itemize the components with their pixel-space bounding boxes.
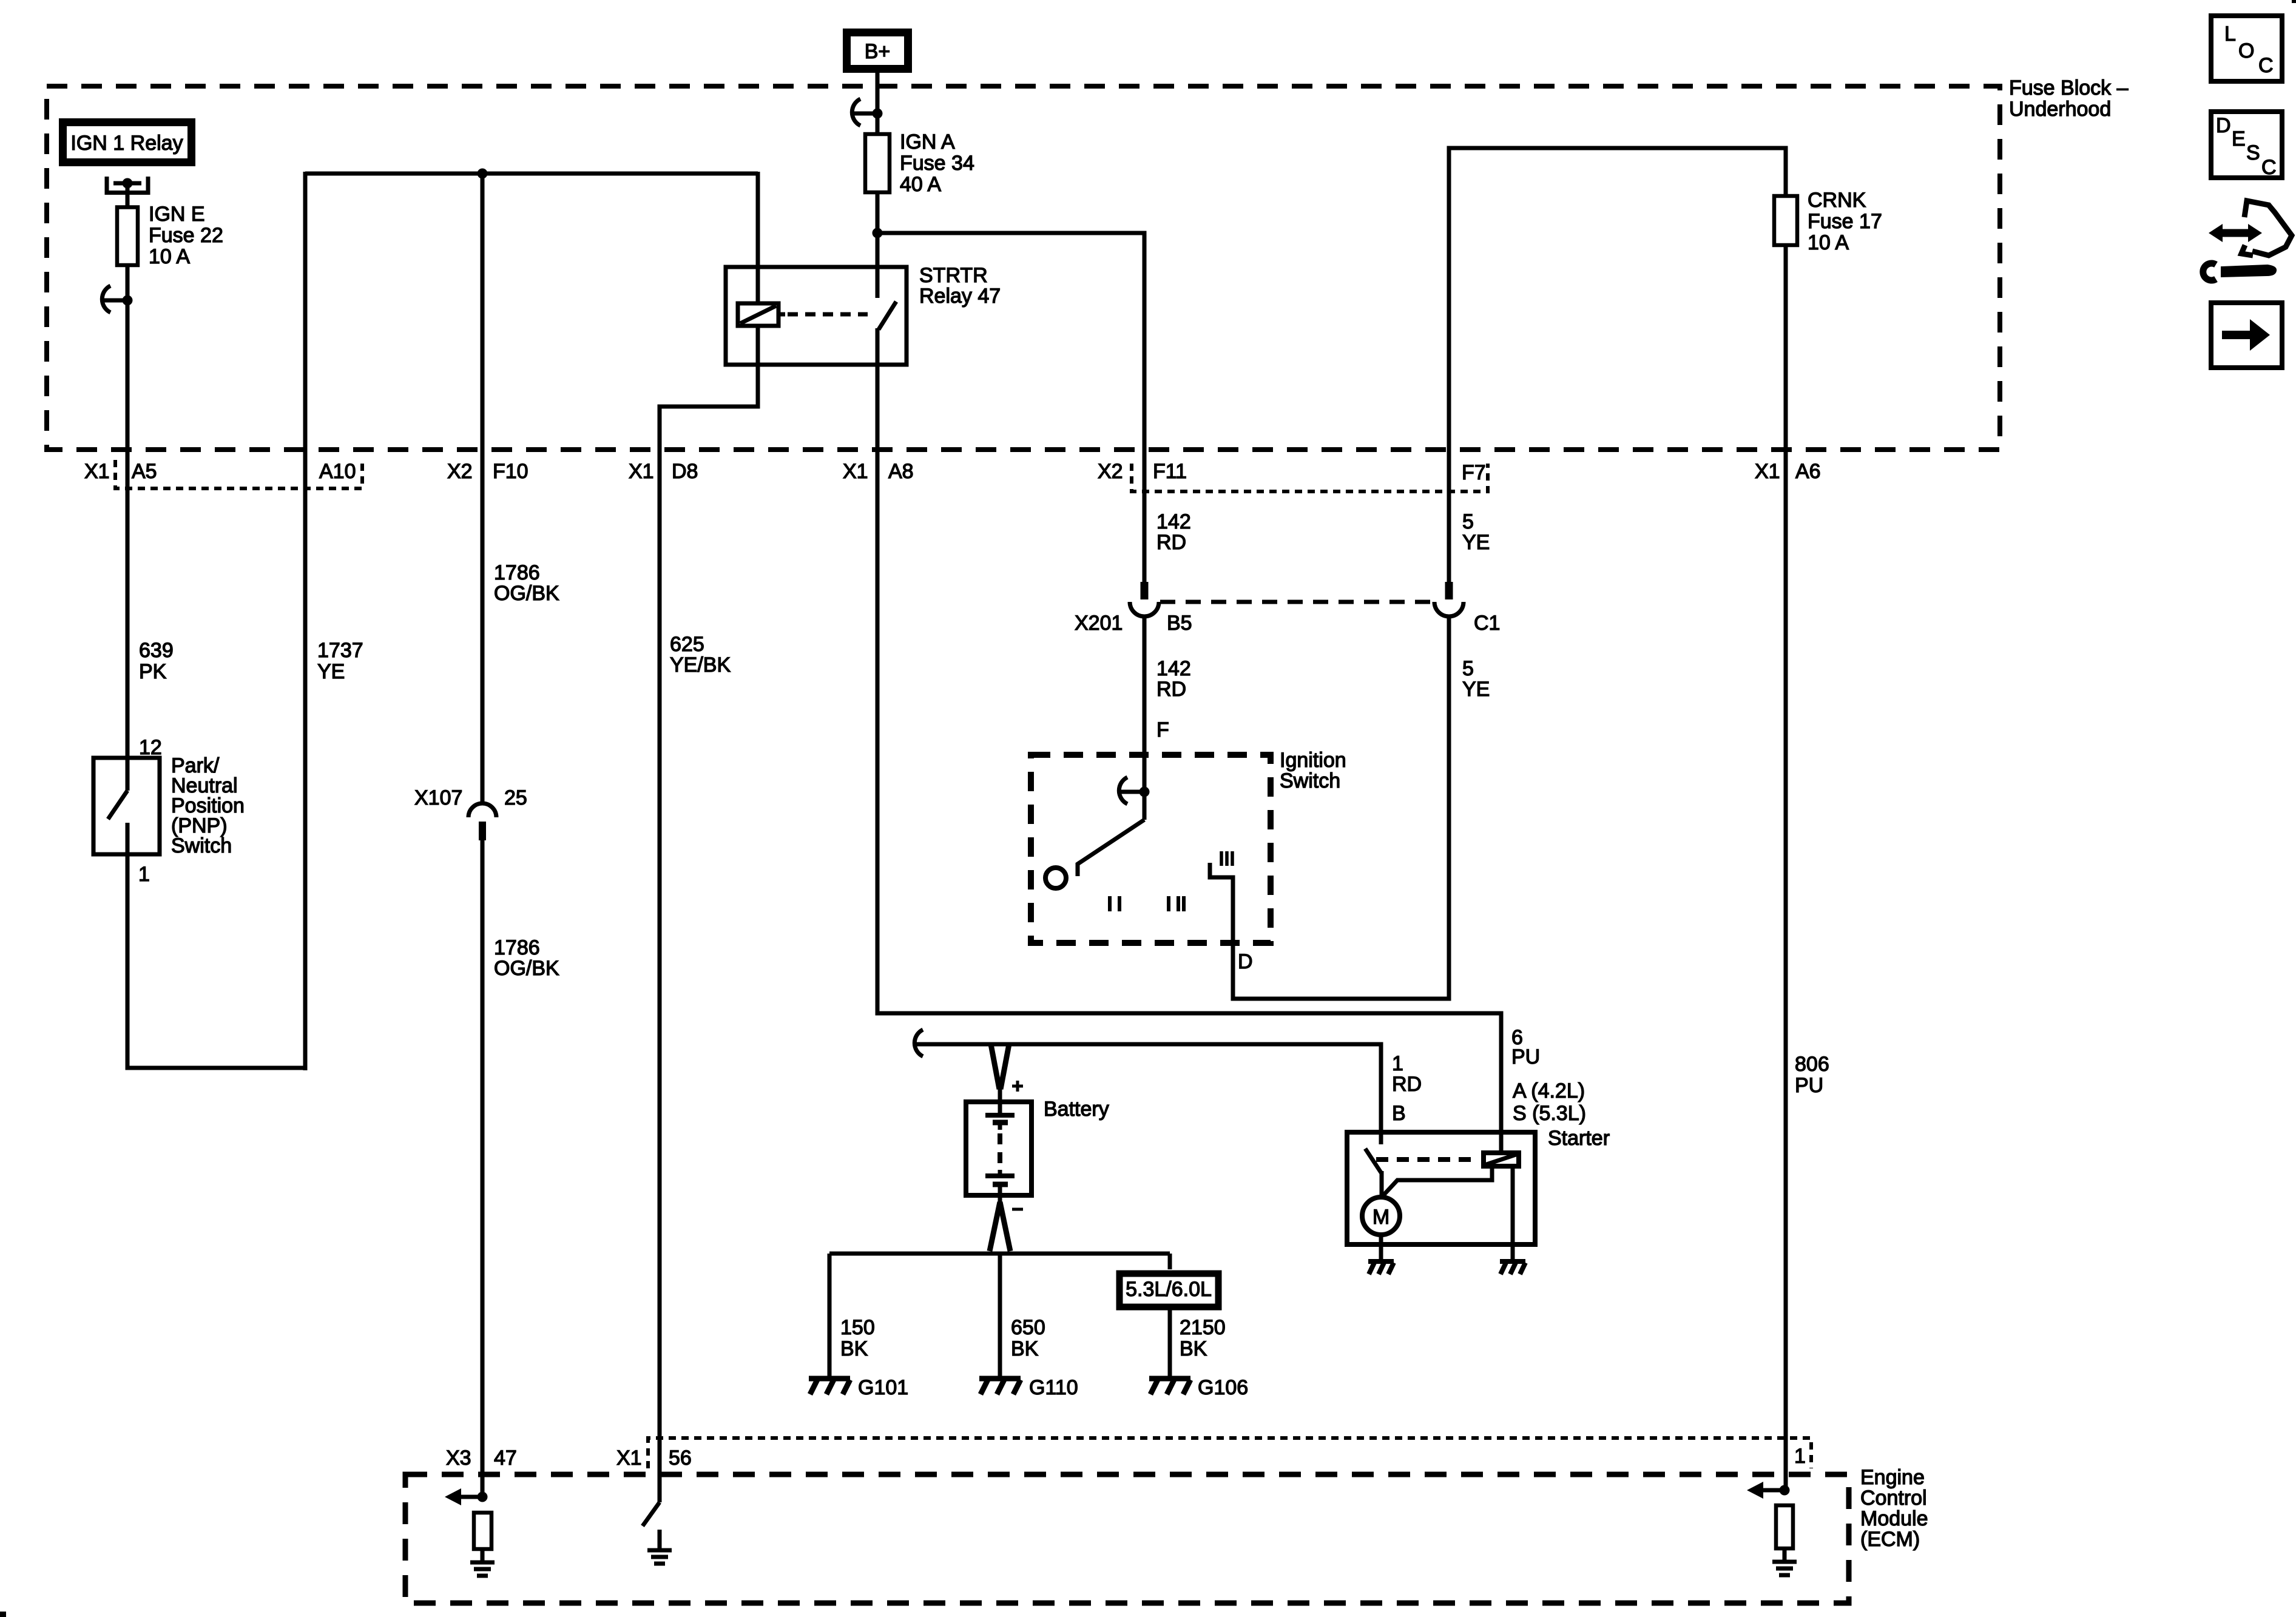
wire switch to earth pin 56 xyxy=(658,1530,662,1548)
svg-text:Fuse 34: Fuse 34 xyxy=(900,152,974,175)
ECM internal resistor pin 47 xyxy=(474,1513,491,1549)
wire junction to F11 column xyxy=(877,233,1144,582)
ground starter solenoid xyxy=(1500,1261,1525,1274)
battery positive feed taper xyxy=(991,1044,1009,1089)
IGN 1 relay output terminal bracket xyxy=(107,177,148,193)
svg-text:PU: PU xyxy=(1511,1045,1540,1068)
junction dot at B+ clip xyxy=(873,109,883,119)
svg-text:40 A: 40 A xyxy=(900,173,941,196)
svg-text:C: C xyxy=(2261,156,2277,179)
wire label 1 RD xyxy=(1392,1052,1422,1096)
ECM internal arrow pin 47 xyxy=(445,1488,482,1505)
wire ignition D to C1 5 YE column xyxy=(1231,997,1450,1001)
relay 47 switch blade xyxy=(879,302,896,329)
svg-text:F: F xyxy=(1156,718,1169,741)
icon forward arrow box xyxy=(2211,303,2282,368)
svg-text:IGN E: IGN E xyxy=(149,203,205,226)
fuse CRNK value label xyxy=(1808,189,1882,254)
svg-text:5.3L/6.0L: 5.3L/6.0L xyxy=(1126,1278,1212,1301)
ignition key position mark I II xyxy=(1169,896,1184,911)
power symbol B+ label box xyxy=(847,33,908,69)
ECM connector X1 strip xyxy=(648,1438,1811,1468)
svg-text:12: 12 xyxy=(139,736,162,759)
svg-text:F10: F10 xyxy=(493,460,528,483)
svg-text:X3: X3 xyxy=(446,1447,471,1470)
svg-text:806: 806 xyxy=(1795,1053,1829,1076)
svg-text:D: D xyxy=(2216,114,2231,137)
svg-text:5: 5 xyxy=(1462,657,1474,680)
svg-text:(ECM): (ECM) xyxy=(1860,1528,1920,1551)
wire label 1737 YE xyxy=(317,639,363,683)
svg-text:5: 5 xyxy=(1462,510,1474,533)
motor M circle xyxy=(1362,1197,1400,1235)
ignition key position mark II xyxy=(1110,896,1119,911)
svg-text:Ignition: Ignition xyxy=(1280,749,1346,772)
svg-text:YE/BK: YE/BK xyxy=(670,653,731,677)
icon wrench and arrows xyxy=(2203,201,2292,280)
svg-text:RD: RD xyxy=(1156,531,1186,554)
svg-text:10 A: 10 A xyxy=(149,245,190,268)
wire battery positive bus to starter B xyxy=(935,1044,1381,1144)
wire F7 exit to connector C1 xyxy=(1447,452,1451,582)
starter box xyxy=(1347,1132,1535,1244)
svg-text:142: 142 xyxy=(1156,657,1191,680)
svg-text:BK: BK xyxy=(1011,1337,1039,1360)
svg-text:X2: X2 xyxy=(1098,460,1123,483)
wire ground drop G101 xyxy=(828,1254,832,1377)
svg-text:E: E xyxy=(2232,127,2246,150)
connector X2 strip on fuse block xyxy=(1132,464,1488,491)
in-line connector X201 pin B5 xyxy=(1130,582,1159,616)
svg-text:Engine: Engine xyxy=(1860,1466,1925,1489)
svg-text:CRNK: CRNK xyxy=(1808,189,1866,212)
ignition switch crank contact D xyxy=(1210,863,1233,999)
wire label 6 PU xyxy=(1511,1026,1540,1068)
svg-text:625: 625 xyxy=(670,633,704,656)
wire label 150 BK xyxy=(840,1316,875,1360)
battery internal dashed link xyxy=(998,1133,1002,1169)
svg-text:Fuse Block –: Fuse Block – xyxy=(2009,76,2129,100)
earth ground ECM pin 1 xyxy=(1772,1562,1797,1575)
svg-text:10 A: 10 A xyxy=(1808,231,1849,254)
wire label 639 PK xyxy=(139,639,174,683)
wire ground drop G106 lower xyxy=(1168,1308,1172,1377)
svg-text:S: S xyxy=(2246,141,2260,164)
svg-text:639: 639 xyxy=(139,639,174,662)
svg-text:IGN A: IGN A xyxy=(900,130,955,154)
battery negative post xyxy=(998,1186,1002,1204)
svg-text:X1: X1 xyxy=(84,460,110,483)
ECM name label xyxy=(1860,1466,1928,1551)
svg-text:X1: X1 xyxy=(1755,460,1780,483)
fuse IGN A value label xyxy=(900,130,974,196)
battery negative feed taper xyxy=(990,1202,1010,1251)
fuse IGN E Fuse 22 xyxy=(117,208,138,266)
svg-text:BK: BK xyxy=(840,1337,868,1360)
svg-text:S (5.3L): S (5.3L) xyxy=(1513,1102,1586,1125)
battery minus sign label xyxy=(1012,1208,1023,1211)
relay STRTR label xyxy=(919,264,1001,308)
svg-text:25: 25 xyxy=(504,786,527,809)
wire relay 47 coil top to rail xyxy=(756,172,760,303)
wire A8 column to starter solenoid S xyxy=(877,452,1501,1150)
svg-text:47: 47 xyxy=(494,1447,517,1470)
svg-text:Control: Control xyxy=(1860,1487,1927,1510)
fuse CRNK Fuse 17 xyxy=(1774,196,1797,245)
battery plus sign label xyxy=(1012,1081,1023,1092)
svg-text:X201: X201 xyxy=(1075,612,1123,635)
earth ground ECM pin 47 xyxy=(470,1562,495,1576)
junction dot at IGN E clip xyxy=(123,295,133,306)
junction dot at IGN 1 relay terminal xyxy=(123,178,133,189)
svg-text:D8: D8 xyxy=(672,460,698,483)
svg-text:D: D xyxy=(1238,950,1253,973)
wire B+ feed into fuse block xyxy=(876,69,880,134)
svg-text:1737: 1737 xyxy=(317,639,363,662)
relay IGN 1 Relay label box xyxy=(63,123,192,163)
pin label X1 A6 xyxy=(1755,460,1821,483)
connector X1 strip on fuse block xyxy=(115,460,362,488)
svg-text:OG/BK: OG/BK xyxy=(494,957,559,980)
ignition switch name label xyxy=(1280,749,1346,792)
battery positive splice clip xyxy=(914,1030,940,1056)
wire X107 down to ECM pin 47 xyxy=(481,840,485,1497)
ground G101 xyxy=(809,1379,850,1394)
wire resistor to earth pin 47 xyxy=(481,1549,485,1561)
svg-text:RD: RD xyxy=(1156,678,1186,701)
svg-text:Fuse 22: Fuse 22 xyxy=(149,224,223,247)
svg-text:1: 1 xyxy=(1794,1445,1806,1468)
svg-text:Switch: Switch xyxy=(171,834,232,857)
in-line connector X107 xyxy=(468,803,496,840)
PNP switch blade xyxy=(108,791,127,819)
in-line connector X201 dashed body xyxy=(1160,600,1436,604)
ignition switch clip at F terminal xyxy=(1119,777,1144,804)
ignition switch dashed box xyxy=(1031,755,1271,943)
svg-text:IGN 1 Relay: IGN 1 Relay xyxy=(70,132,183,155)
pin label X3 47 xyxy=(446,1447,517,1470)
svg-text:M: M xyxy=(1373,1206,1389,1229)
wire label 5 YE lower xyxy=(1462,657,1490,701)
svg-text:C: C xyxy=(2258,54,2274,77)
battery cell plates upper xyxy=(985,1115,1015,1130)
wire solenoid output to motor xyxy=(1382,1169,1492,1197)
svg-text:F11: F11 xyxy=(1153,460,1187,483)
ground G110 xyxy=(979,1379,1021,1394)
wire label 625 YE/BK xyxy=(670,633,731,677)
svg-text:X2: X2 xyxy=(447,460,473,483)
pin label X1 56 xyxy=(616,1447,692,1470)
ground G106 xyxy=(1149,1379,1190,1394)
fuse block clip at IGN E output xyxy=(102,286,127,312)
wire relay 47 coil bottom to D8 column xyxy=(660,326,758,452)
ECM internal arrow pin 1 xyxy=(1747,1482,1784,1499)
junction dot ECM pin 1 input xyxy=(1780,1485,1790,1496)
svg-text:F7: F7 xyxy=(1462,461,1486,484)
svg-text:A10: A10 xyxy=(319,460,356,483)
wire D8 column down to ECM pin 56 xyxy=(658,452,662,1502)
svg-text:G110: G110 xyxy=(1029,1376,1078,1399)
svg-text:RD: RD xyxy=(1392,1073,1422,1096)
ignition switch rotor hub circle xyxy=(1045,868,1066,888)
terminal label A 4.2L S 5.3L xyxy=(1513,1079,1586,1125)
svg-text:A8: A8 xyxy=(888,460,914,483)
wire label 806 PU xyxy=(1795,1053,1829,1097)
icon LOC box xyxy=(2211,16,2282,81)
wire PNP lower contact to loop bottom xyxy=(126,823,130,1068)
wire ground drop G106 upper xyxy=(1168,1254,1172,1269)
relay 47 actuating dashed link xyxy=(788,312,868,317)
relay STRTR Relay 47 box xyxy=(726,267,907,365)
switch Park/Neutral Position PNP box xyxy=(93,758,160,854)
ignition switch rotor blade xyxy=(1078,820,1144,876)
svg-text:56: 56 xyxy=(669,1447,692,1470)
ground starter motor xyxy=(1368,1261,1394,1274)
engine option box 5.3L/6.0L xyxy=(1119,1274,1218,1307)
svg-text:1: 1 xyxy=(138,863,150,886)
starter solenoid switch blade xyxy=(1365,1149,1382,1173)
svg-text:L: L xyxy=(2224,22,2236,46)
wire C1 to ignition D corner xyxy=(1447,616,1451,1001)
wire starter B contact to motor xyxy=(1380,1171,1384,1195)
svg-text:X1: X1 xyxy=(616,1447,642,1470)
wire motor to ground xyxy=(1379,1235,1383,1260)
wire A10 column xyxy=(303,172,308,1070)
ECM internal switch blade pin 56 xyxy=(643,1502,660,1526)
svg-text:1786: 1786 xyxy=(494,561,540,584)
svg-text:X1: X1 xyxy=(843,460,868,483)
wire A6 down to ECM pin 1 wire 806 PU xyxy=(1784,452,1788,1490)
wire ground drop G110 xyxy=(998,1254,1002,1377)
wire resistor to earth pin 1 xyxy=(1783,1548,1787,1560)
ECM dashed box xyxy=(405,1474,1849,1603)
fuse block clip at B+ feed xyxy=(852,99,877,126)
stray mark top right corner xyxy=(2292,0,2296,3)
svg-text:YE: YE xyxy=(317,660,345,683)
stray dot bottom left xyxy=(0,1612,6,1617)
pin label X1 A8 xyxy=(843,460,914,483)
svg-text:O: O xyxy=(2238,39,2254,62)
wire label 142 RD lower xyxy=(1156,657,1191,701)
junction dot ECM pin 47 input xyxy=(478,1492,488,1502)
wire B5 to ignition switch F xyxy=(1143,616,1147,820)
svg-text:STRTR: STRTR xyxy=(919,264,988,287)
wire label 650 BK xyxy=(1011,1316,1045,1360)
wire F10 column in fuse block xyxy=(481,174,485,452)
ECM internal resistor pin 1 xyxy=(1776,1505,1793,1548)
wire label 1786 OG/BK upper xyxy=(494,561,559,605)
wire F7 column and CRNK feed rail xyxy=(1449,148,1786,452)
svg-text:Starter: Starter xyxy=(1548,1127,1610,1150)
svg-text:BK: BK xyxy=(1180,1337,1207,1360)
svg-text:Switch: Switch xyxy=(1280,769,1340,792)
wire F10 to splice X107 xyxy=(481,452,485,805)
in-line connector X201 pin C1 xyxy=(1434,582,1464,616)
wire battery negative bus xyxy=(829,1252,1170,1256)
fuse IGN A Fuse 34 xyxy=(865,134,890,192)
svg-text:C1: C1 xyxy=(1474,612,1500,635)
wire fuse IGN A output to STRTR relay switch xyxy=(876,192,880,298)
wire label 5 YE upper xyxy=(1462,510,1490,554)
svg-text:X1: X1 xyxy=(629,460,654,483)
svg-text:Underhood: Underhood xyxy=(2009,98,2111,121)
svg-text:150: 150 xyxy=(840,1316,875,1339)
ignition key position mark III xyxy=(1221,851,1232,866)
svg-text:B5: B5 xyxy=(1167,612,1192,635)
svg-text:Module: Module xyxy=(1860,1507,1928,1530)
wire label 2150 BK xyxy=(1180,1316,1226,1360)
fuse IGN E value label xyxy=(149,203,223,268)
wire fuse CRNK to pin A6 xyxy=(1784,245,1788,452)
svg-text:G106: G106 xyxy=(1198,1376,1248,1399)
svg-text:B+: B+ xyxy=(865,40,891,63)
wire solenoid coil to ground xyxy=(1511,1169,1515,1260)
svg-text:1786: 1786 xyxy=(494,936,540,959)
svg-text:B: B xyxy=(1392,1102,1406,1125)
pin label X2 F10 xyxy=(447,460,528,483)
svg-text:A (4.2L): A (4.2L) xyxy=(1513,1079,1585,1102)
svg-text:OG/BK: OG/BK xyxy=(494,582,559,605)
svg-text:Fuse 17: Fuse 17 xyxy=(1808,210,1882,233)
svg-text:1: 1 xyxy=(1392,1052,1403,1075)
svg-text:Battery: Battery xyxy=(1044,1098,1109,1121)
wire loop bottom A5 to A10 xyxy=(126,1066,306,1070)
wire label 1786 OG/BK lower xyxy=(494,936,559,980)
svg-text:YE: YE xyxy=(1462,678,1490,701)
icon DESC box xyxy=(2211,112,2282,179)
battery cell plates lower xyxy=(985,1170,1015,1184)
svg-text:A5: A5 xyxy=(132,460,157,483)
junction dot fuse IGN A output node xyxy=(873,228,883,238)
wire relay 47 switch output A8 column xyxy=(876,328,880,452)
pin label X1 D8 xyxy=(629,460,698,483)
svg-text:650: 650 xyxy=(1011,1316,1045,1339)
svg-text:142: 142 xyxy=(1156,510,1191,533)
PNP switch name label xyxy=(171,754,245,857)
pin label X1 A5 xyxy=(84,460,157,483)
wire fuse IGN E to connector X1 pin A5 xyxy=(126,265,130,452)
wire A5 column to PNP switch xyxy=(126,450,130,791)
svg-text:PU: PU xyxy=(1795,1074,1823,1097)
starter solenoid dashed link xyxy=(1376,1157,1479,1162)
svg-text:X107: X107 xyxy=(414,786,462,809)
svg-text:PK: PK xyxy=(139,660,167,683)
fuse block underhood dashed boundary xyxy=(47,86,2000,450)
svg-text:YE: YE xyxy=(1462,531,1490,554)
relay 47 coil xyxy=(738,303,785,326)
battery box xyxy=(966,1102,1032,1195)
battery positive post xyxy=(998,1086,1002,1115)
junction dot at ignition F terminal xyxy=(1140,787,1150,797)
starter solenoid coil xyxy=(1484,1153,1519,1166)
svg-text:2150: 2150 xyxy=(1180,1316,1226,1339)
junction dot F10 tap on rail xyxy=(478,169,488,179)
fuse block name label xyxy=(2009,76,2129,121)
svg-text:Relay 47: Relay 47 xyxy=(919,285,1001,308)
wire rail A10 to coil xyxy=(305,172,758,176)
svg-text:A6: A6 xyxy=(1795,460,1821,483)
wire label 142 RD upper xyxy=(1156,510,1191,554)
pin label X2 F11 xyxy=(1098,460,1187,483)
wire IGN1 relay terminal to fuse IGN E xyxy=(126,183,130,208)
earth ground ECM pin 56 xyxy=(647,1550,672,1564)
svg-text:G101: G101 xyxy=(858,1376,908,1399)
